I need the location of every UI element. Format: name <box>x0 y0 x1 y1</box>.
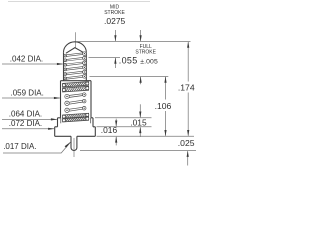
svg-text:.064 DIA.: .064 DIA. <box>9 110 42 119</box>
svg-text:STROKE: STROKE <box>104 10 125 16</box>
svg-text:.174: .174 <box>178 83 195 93</box>
svg-text:.072 DIA.: .072 DIA. <box>9 119 42 128</box>
svg-text:±.005: ±.005 <box>140 58 158 65</box>
svg-text:.106: .106 <box>155 101 172 111</box>
svg-text:.055: .055 <box>119 56 138 66</box>
svg-text:.025: .025 <box>178 138 195 148</box>
svg-text:.017 DIA.: .017 DIA. <box>3 142 36 151</box>
svg-text:.0275: .0275 <box>104 16 126 26</box>
svg-text:.016: .016 <box>101 125 118 135</box>
svg-text:.042 DIA.: .042 DIA. <box>10 55 43 64</box>
svg-text:STROKE: STROKE <box>135 50 156 56</box>
svg-text:.015: .015 <box>130 118 147 128</box>
svg-text:.059 DIA.: .059 DIA. <box>11 89 44 98</box>
